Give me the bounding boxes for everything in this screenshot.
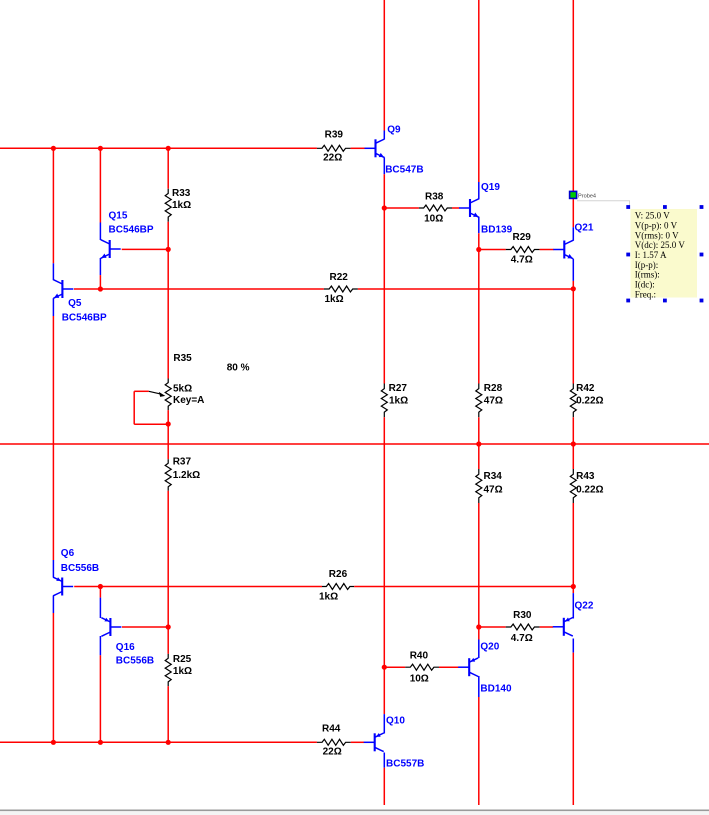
svg-text:R38: R38 [425, 191, 444, 202]
svg-text:V(rms): 0 V: V(rms): 0 V [635, 230, 679, 240]
svg-text:I(rms):: I(rms): [635, 270, 660, 280]
svg-text:BC557B: BC557B [386, 758, 424, 769]
svg-text:4.7Ω: 4.7Ω [511, 254, 533, 265]
svg-text:Q22: Q22 [575, 601, 594, 612]
svg-text:Q10: Q10 [386, 716, 405, 727]
svg-text:4.7Ω: 4.7Ω [511, 633, 533, 644]
svg-text:R35: R35 [173, 353, 192, 364]
svg-text:R42: R42 [576, 383, 595, 394]
svg-text:22Ω: 22Ω [323, 746, 342, 757]
svg-text:BD140: BD140 [480, 683, 512, 694]
svg-text:0.22Ω: 0.22Ω [576, 485, 603, 496]
svg-text:Key=A: Key=A [173, 395, 204, 406]
svg-text:R22: R22 [330, 272, 349, 283]
svg-text:R25: R25 [173, 654, 192, 665]
svg-text:Q6: Q6 [61, 548, 75, 559]
svg-text:Q5: Q5 [68, 298, 82, 309]
svg-text:Q9: Q9 [387, 124, 401, 135]
svg-text:R33: R33 [172, 188, 191, 199]
svg-text:80 %: 80 % [227, 363, 250, 374]
svg-text:R40: R40 [410, 650, 429, 661]
svg-text:V(p-p): 0 V: V(p-p): 0 V [635, 220, 678, 230]
svg-text:22Ω: 22Ω [323, 153, 342, 164]
svg-text:V: 25.0 V: V: 25.0 V [635, 211, 670, 221]
svg-text:BC546BP: BC546BP [62, 313, 107, 324]
svg-text:R43: R43 [576, 471, 595, 482]
svg-text:R26: R26 [329, 569, 348, 580]
svg-text:10Ω: 10Ω [410, 673, 429, 684]
svg-text:1.2kΩ: 1.2kΩ [173, 470, 200, 481]
svg-text:R44: R44 [322, 723, 341, 734]
svg-text:R30: R30 [513, 610, 532, 621]
svg-text:1kΩ: 1kΩ [325, 294, 344, 305]
svg-text:BC547B: BC547B [385, 165, 423, 176]
svg-text:BC546BP: BC546BP [109, 225, 154, 236]
svg-text:Q15: Q15 [109, 211, 128, 222]
svg-text:R39: R39 [325, 130, 344, 141]
svg-text:1kΩ: 1kΩ [172, 200, 191, 211]
svg-text:0.22Ω: 0.22Ω [576, 395, 603, 406]
svg-text:Probe4: Probe4 [578, 194, 596, 200]
svg-text:Q21: Q21 [575, 222, 594, 233]
svg-text:BC556B: BC556B [116, 655, 154, 666]
svg-text:BC556B: BC556B [61, 563, 99, 574]
svg-text:BD139: BD139 [481, 224, 513, 235]
svg-text:R27: R27 [389, 383, 408, 394]
svg-text:1kΩ: 1kΩ [173, 666, 192, 677]
svg-text:1kΩ: 1kΩ [319, 591, 338, 602]
svg-text:R29: R29 [513, 232, 532, 243]
svg-text:I(p-p):: I(p-p): [635, 260, 659, 270]
svg-text:Q20: Q20 [480, 642, 499, 653]
svg-text:Q16: Q16 [116, 642, 135, 653]
svg-text:I: 1.57 A: I: 1.57 A [635, 250, 667, 260]
svg-text:47Ω: 47Ω [484, 485, 503, 496]
svg-text:R34: R34 [484, 471, 503, 482]
svg-text:V(dc): 25.0 V: V(dc): 25.0 V [635, 240, 686, 250]
svg-text:10Ω: 10Ω [424, 213, 443, 224]
svg-text:5kΩ: 5kΩ [173, 383, 192, 394]
svg-text:R28: R28 [484, 383, 503, 394]
svg-text:R37: R37 [173, 456, 192, 467]
svg-text:47Ω: 47Ω [484, 395, 503, 406]
svg-text:Q19: Q19 [481, 182, 500, 193]
svg-text:I(dc):: I(dc): [635, 280, 655, 290]
svg-text:Freq.:: Freq.: [635, 289, 656, 299]
svg-text:1kΩ: 1kΩ [389, 395, 408, 406]
